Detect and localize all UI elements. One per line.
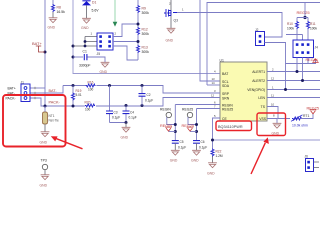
wire REGIN column xyxy=(175,105,220,141)
svg-text:BAT-: BAT- xyxy=(49,89,58,93)
annotation red box VSS xyxy=(257,113,286,136)
node PACK- R19 bottom xyxy=(72,105,75,108)
svg-text:VEN(GPIO): VEN(GPIO) xyxy=(247,88,265,92)
svg-text:BAT: BAT xyxy=(222,72,228,76)
node PACK- NT1 xyxy=(44,105,47,108)
svg-text:300k: 300k xyxy=(142,11,150,15)
wire J5 left pins common xyxy=(73,37,97,47)
ground below D1 xyxy=(82,18,91,23)
svg-text:ALERT2: ALERT2 xyxy=(252,79,265,83)
pin ticks J1 xyxy=(34,87,36,99)
svg-text:R11: R11 xyxy=(310,22,316,26)
wire RT1 to REG25 port xyxy=(301,114,313,119)
connector J1 xyxy=(21,84,30,102)
svg-text:Q3: Q3 xyxy=(174,19,179,23)
svg-text:0.1µF: 0.1µF xyxy=(129,116,137,120)
ground R22 xyxy=(208,163,217,168)
annotation red box pack xyxy=(3,95,66,147)
wire J4 pin5 to ALERT2 xyxy=(302,58,304,81)
svg-text:10.0k ohm: 10.0k ohm xyxy=(292,123,308,127)
svg-text:U1: U1 xyxy=(220,58,224,62)
svg-text:10: 10 xyxy=(271,103,275,107)
svg-text:REG25: REG25 xyxy=(182,124,194,128)
svg-text:GND: GND xyxy=(170,159,178,163)
net-tie NT1 xyxy=(43,112,48,124)
svg-text:R12: R12 xyxy=(142,27,148,31)
svg-text:1: 1 xyxy=(182,8,184,12)
resistor R11 xyxy=(307,21,310,29)
svg-text:LEN: LEN xyxy=(258,96,265,100)
svg-text:GND: GND xyxy=(207,171,215,175)
node C4 gnd xyxy=(125,121,128,124)
svg-text:0.1µF: 0.1µF xyxy=(178,145,186,149)
wire TS to RT1 xyxy=(267,107,290,119)
diode D1 (zener 5.6V) xyxy=(82,0,90,2)
svg-text:D1: D1 xyxy=(92,0,96,4)
svg-text:CE: CE xyxy=(222,117,227,121)
svg-text:16.5k: 16.5k xyxy=(57,10,66,14)
svg-text:BQ34110PWR: BQ34110PWR xyxy=(218,125,243,129)
wire SRP from sense network xyxy=(63,86,220,94)
connector J5 xyxy=(97,33,113,50)
svg-text:100k: 100k xyxy=(310,27,317,31)
resistor R9 xyxy=(137,5,140,13)
wire R9 bus x=138 xyxy=(137,0,139,60)
wire NT1 to ground xyxy=(44,124,46,132)
ground below Q3 xyxy=(167,28,176,33)
node x73 J5 tap xyxy=(72,45,75,48)
svg-text:J5: J5 xyxy=(97,52,101,56)
svg-text:REG25: REG25 xyxy=(222,107,233,111)
svg-text:12: 12 xyxy=(271,77,275,81)
svg-text:0.1µF: 0.1µF xyxy=(199,145,207,149)
wire SCL vertical x=200 xyxy=(200,0,220,81)
svg-text:1: 1 xyxy=(91,32,93,36)
svg-text:BAT+: BAT+ xyxy=(8,87,16,91)
ground C5 xyxy=(171,150,180,155)
wire J4 pin4 to ALERT1 xyxy=(296,58,298,72)
svg-text:300k: 300k xyxy=(142,50,150,54)
wire J2 pin2 to VEN xyxy=(265,43,286,90)
svg-text:1.2M: 1.2M xyxy=(216,154,223,158)
resistor R10 xyxy=(296,21,299,29)
svg-text:4: 4 xyxy=(214,69,216,73)
resistor R20 xyxy=(85,104,96,108)
wire ALERT2 xyxy=(267,80,320,82)
wire C3/C4 bottoms xyxy=(110,122,127,124)
wire PACK- bend xyxy=(30,98,45,106)
svg-text:GND: GND xyxy=(191,159,199,163)
wire R10/R11 top tie xyxy=(297,18,308,22)
svg-text:C6: C6 xyxy=(201,140,205,144)
svg-text:GND: GND xyxy=(81,26,89,30)
svg-text:PACK-: PACK- xyxy=(49,100,61,104)
svg-text:14: 14 xyxy=(212,81,216,85)
node C2 bottom xyxy=(141,104,144,107)
wire R22 to ground xyxy=(212,157,214,163)
node x73 C1 tap xyxy=(72,56,75,59)
svg-text:BAT+: BAT+ xyxy=(32,41,42,46)
capacitor C2 xyxy=(141,86,143,106)
wire NT1 stem xyxy=(44,106,46,112)
svg-text:C1: C1 xyxy=(83,50,87,54)
resistor R12 xyxy=(137,27,140,35)
svg-text:REGIN: REGIN xyxy=(160,108,171,112)
svg-text:R10: R10 xyxy=(287,22,293,26)
power port BAT+ bar xyxy=(36,46,45,52)
svg-text:REG25: REG25 xyxy=(297,10,311,15)
svg-text:SRN: SRN xyxy=(222,96,230,100)
connector J6 xyxy=(306,159,314,172)
svg-text:REGIN: REGIN xyxy=(160,124,172,128)
wire SRN from sense network xyxy=(45,98,220,107)
svg-text:J6: J6 xyxy=(305,155,309,159)
wire CE long net xyxy=(213,139,320,141)
svg-text:SRP: SRP xyxy=(222,92,230,96)
svg-text:GND: GND xyxy=(48,26,56,30)
svg-text:R8: R8 xyxy=(57,5,61,9)
wire BAT+ vertical bus x=45 xyxy=(44,0,46,106)
node REG25 xyxy=(303,16,306,19)
wire J4 pin6 to REGIN port xyxy=(286,58,316,64)
svg-text:5.01: 5.01 xyxy=(76,93,82,97)
wire ALERT1 xyxy=(267,71,320,73)
wire J6 stubs xyxy=(314,162,320,168)
svg-text:GND: GND xyxy=(100,70,108,74)
wire REG25 column xyxy=(197,109,221,141)
node CE net xyxy=(211,139,214,142)
svg-text:2: 2 xyxy=(115,32,117,36)
wire BAT- vertical bus x=73 xyxy=(73,0,220,74)
svg-text:2: 2 xyxy=(272,68,274,72)
node R9/R12 xyxy=(137,23,140,26)
IC U1 BQ34110PWR body xyxy=(220,62,267,121)
node ALERT2/J4 xyxy=(301,79,304,82)
svg-text:11: 11 xyxy=(271,94,274,98)
node J5 pin3 xyxy=(84,40,87,43)
svg-text:100: 100 xyxy=(85,108,91,112)
net label REGIN port xyxy=(169,131,176,133)
wire LEN xyxy=(267,97,320,99)
ground NT1 xyxy=(41,132,50,137)
node BAT- R19 top xyxy=(72,84,75,87)
node R12/R13 xyxy=(137,40,140,43)
annotation red arrow to NT1 ground xyxy=(56,138,83,149)
svg-text:R13: R13 xyxy=(142,45,148,49)
net label REG25 port xyxy=(190,131,197,133)
svg-text:8: 8 xyxy=(273,113,275,117)
node BAT+ tap junction xyxy=(44,51,47,54)
wire BAT+ stub J1 xyxy=(30,87,45,89)
svg-text:SDA: SDA xyxy=(222,84,230,88)
svg-text:3300pF: 3300pF xyxy=(79,64,91,68)
capacitor C6 xyxy=(193,141,200,144)
svg-text:C2: C2 xyxy=(147,93,151,97)
svg-text:0.1µF: 0.1µF xyxy=(145,99,153,103)
node ALERT1/J4 xyxy=(296,70,299,73)
wire REG25 drop xyxy=(304,3,306,18)
node VEN/J2 xyxy=(284,88,287,91)
svg-text:C3: C3 xyxy=(114,110,118,114)
svg-text:1: 1 xyxy=(272,86,274,90)
annotation red box BQ34110PWR xyxy=(216,121,252,131)
svg-text:J2: J2 xyxy=(255,28,259,32)
svg-text:12: 12 xyxy=(211,94,215,98)
wire R8 top xyxy=(52,0,54,4)
svg-text:VSS: VSS xyxy=(259,117,267,121)
svg-text:ALERT1: ALERT1 xyxy=(252,70,265,74)
capacitor C4 xyxy=(125,106,127,123)
svg-text:C4: C4 xyxy=(130,110,134,114)
svg-text:GND: GND xyxy=(40,183,48,187)
resistor R8 xyxy=(52,4,55,12)
wire J5 pin2 to R12 top xyxy=(113,24,138,37)
svg-text:5: 5 xyxy=(214,114,216,118)
ground TP3 xyxy=(41,175,50,180)
wire SDA vertical x=207 xyxy=(207,3,320,86)
svg-text:J4: J4 xyxy=(315,46,319,50)
svg-text:J1: J1 xyxy=(21,80,25,84)
svg-text:300k: 300k xyxy=(142,32,150,36)
wire D1 to ground xyxy=(86,5,88,18)
svg-text:R22: R22 xyxy=(216,149,222,153)
svg-text:GND: GND xyxy=(166,39,174,43)
svg-text:TS: TS xyxy=(261,105,266,109)
ground below R8 xyxy=(49,18,58,23)
wire J5 pin4 to R12/R13 mid xyxy=(113,41,138,43)
power port REG25 arrow xyxy=(310,110,317,114)
node sense C2 top xyxy=(141,84,144,87)
node sense C3 tap xyxy=(108,84,111,87)
wire VEN(GPIO) xyxy=(267,89,320,91)
svg-text:0.1µF: 0.1µF xyxy=(112,116,120,120)
wire BAT- bend xyxy=(30,86,63,94)
svg-text:R9: R9 xyxy=(142,6,146,10)
svg-text:5.6V: 5.6V xyxy=(92,8,100,12)
annotation green probe arrow xyxy=(114,0,116,22)
svg-text:REG25: REG25 xyxy=(182,108,193,112)
connector J2 xyxy=(256,32,265,46)
ground C6 xyxy=(192,150,201,155)
wire J5 pin6 to R13 bottom xyxy=(113,46,138,60)
capacitor C3 xyxy=(109,86,111,123)
wire R10/R11 bottoms to J4 xyxy=(286,29,308,40)
svg-text:RT1: RT1 xyxy=(303,114,309,118)
resistor R16 xyxy=(85,84,96,88)
ground VSS xyxy=(273,123,282,128)
capacitor C5 xyxy=(172,141,179,144)
capacitor C1 3300pF xyxy=(73,56,83,58)
svg-text:3: 3 xyxy=(214,89,216,93)
node J5 pin5 xyxy=(84,45,87,48)
transistor Q3 xyxy=(170,0,172,28)
wire VSS to ground xyxy=(267,119,277,124)
resistor R19 xyxy=(72,86,74,107)
wire R8 to ground xyxy=(52,12,54,18)
resistor R13 xyxy=(137,45,140,53)
svg-text:GND: GND xyxy=(121,136,129,140)
svg-text:TP3: TP3 xyxy=(41,158,47,162)
connector J4 xyxy=(293,40,314,58)
svg-text:R16: R16 xyxy=(88,80,94,84)
resistor R22 xyxy=(211,149,214,157)
svg-text:PACK-: PACK- xyxy=(6,97,16,101)
annotation red arrow to VSS ground xyxy=(251,143,265,174)
svg-text:C5: C5 xyxy=(180,140,184,144)
svg-text:NT1: NT1 xyxy=(49,114,55,118)
ground C1 xyxy=(101,62,110,67)
wire Q3 pin1 to J2 xyxy=(177,13,282,38)
svg-text:GND: GND xyxy=(40,140,48,144)
svg-text:Net-Tie: Net-Tie xyxy=(49,119,60,123)
thermistor RT1 xyxy=(292,117,302,120)
wire CE to R22 xyxy=(213,118,221,149)
node C4 top xyxy=(125,104,128,107)
svg-text:100: 100 xyxy=(88,87,94,91)
ground C3/C4 xyxy=(125,123,127,128)
svg-text:7: 7 xyxy=(214,105,216,109)
svg-text:R20: R20 xyxy=(85,100,91,104)
svg-text:100k: 100k xyxy=(287,27,294,31)
